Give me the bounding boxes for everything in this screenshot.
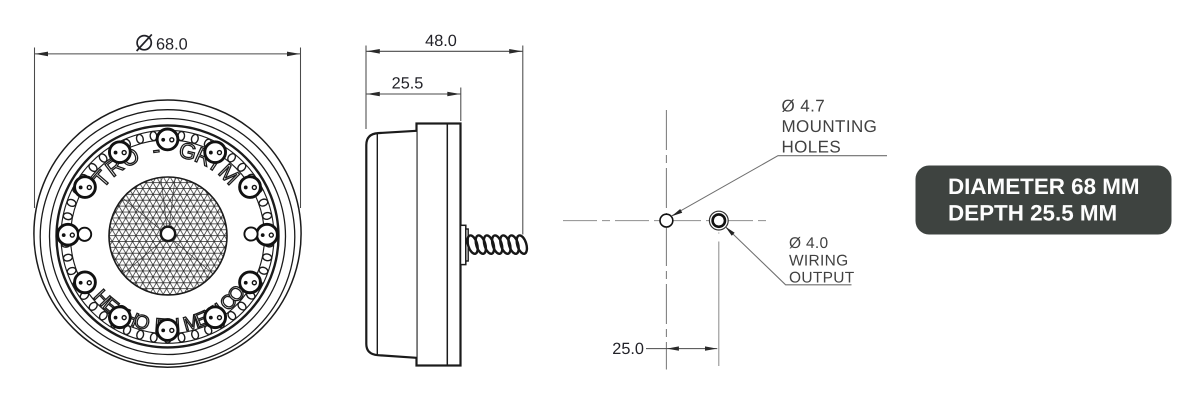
LED bulb at 300 deg: [205, 307, 226, 328]
front view: right fastener hole: [244, 227, 257, 240]
dimension 48.0: dimension line with arrows: [366, 50, 522, 52]
side view: coiled wire: [466, 234, 529, 255]
front view: bead band inner circle: [71, 140, 265, 334]
svg-text:25.5: 25.5: [392, 75, 424, 93]
svg-text:MOUNTING: MOUNTING: [782, 117, 878, 136]
svg-text:DEPTH 25.5 MM: DEPTH 25.5 MM: [948, 201, 1117, 226]
front view: left fastener hole: [78, 228, 91, 241]
front view: curved brand text TRO-GRIM (top arc): [88, 137, 244, 192]
LED bulb at 0 deg: [257, 224, 278, 245]
front view: bezel ring 2: [40, 110, 295, 365]
dimension 25.5: dimension line with arrows: [366, 93, 460, 95]
svg-text:Ø 4.0: Ø 4.0: [789, 235, 828, 252]
front view: bezel ring 3: [50, 119, 286, 355]
front view: curved text HECHO EN MEXICO (bottom arc): [89, 281, 250, 337]
svg-text:OUTPUT: OUTPUT: [789, 270, 855, 287]
LED bulb at 240 deg: [109, 307, 130, 328]
LED bulb at 150 deg: [75, 177, 96, 198]
mounting diagram: vertical line below wiring hole: [718, 233, 720, 367]
dimension Ø68.0: dimension line with arrows: [35, 53, 301, 55]
mounting diagram: horizontal centerline: [563, 220, 771, 222]
LED bulb at 330 deg: [240, 272, 261, 293]
mounting diagram: vertical centerline through mounting hole: [665, 110, 667, 370]
svg-text:68.0: 68.0: [156, 35, 188, 53]
front view: lamp outer circle: [34, 100, 301, 367]
front view: bead ring (crimp details): [61, 131, 274, 343]
side view: housing inner edge line: [446, 124, 448, 366]
spec badge text: [948, 174, 1140, 226]
dimension 25.5: extension line: [460, 88, 462, 122]
svg-text:DIAMETER 68 MM: DIAMETER 68 MM: [948, 174, 1140, 199]
side view: lamp body housing: [417, 124, 461, 366]
svg-text:HOLES: HOLES: [782, 137, 842, 156]
LED bulb at 120 deg: [109, 142, 130, 163]
spec badge background: [916, 166, 1172, 235]
wiring output hole (Ø4.0): [709, 211, 728, 230]
label: Ø 4.7 MOUNTING HOLES: [782, 97, 878, 157]
dimension 48.0: extension lines: [365, 46, 367, 130]
LED bulb at 180 deg: [58, 224, 79, 245]
dimension Ø68.0: diameter symbol: [137, 36, 151, 50]
front view: reflector mold seam lines: [123, 178, 213, 274]
svg-text:WIRING: WIRING: [789, 252, 849, 269]
label: Ø 4.0 WIRING OUTPUT: [789, 235, 855, 287]
leader line to wiring output label: [725, 227, 851, 285]
side view: lens bevel line: [376, 133, 378, 355]
front view: thick face ring: [57, 125, 279, 347]
dimension Ø68.0: extension lines: [34, 48, 36, 209]
LED bulb at 30 deg: [240, 177, 261, 198]
front view: center reflector with honeycomb texture: [109, 177, 227, 295]
LED bulb at 210 deg: [75, 272, 96, 293]
side view: wire grommet bracket: [461, 225, 466, 264]
front view: center pilot hole: [161, 227, 175, 241]
leader line to mounting holes label: [672, 156, 887, 216]
dimension 25.0: dimension line with arrows: [646, 348, 717, 350]
front view: bead band outer circle: [61, 130, 274, 343]
svg-text:Ø 4.7: Ø 4.7: [782, 97, 826, 116]
side view: lens profile: [366, 131, 416, 358]
svg-text:25.0: 25.0: [612, 340, 644, 358]
LED bulb at 270 deg: [157, 320, 178, 341]
LED bulb at 90 deg: [157, 129, 178, 150]
svg-text:48.0: 48.0: [425, 32, 457, 50]
LED bulb at 60 deg: [205, 142, 226, 163]
mounting hole (Ø4.7): [660, 214, 673, 227]
